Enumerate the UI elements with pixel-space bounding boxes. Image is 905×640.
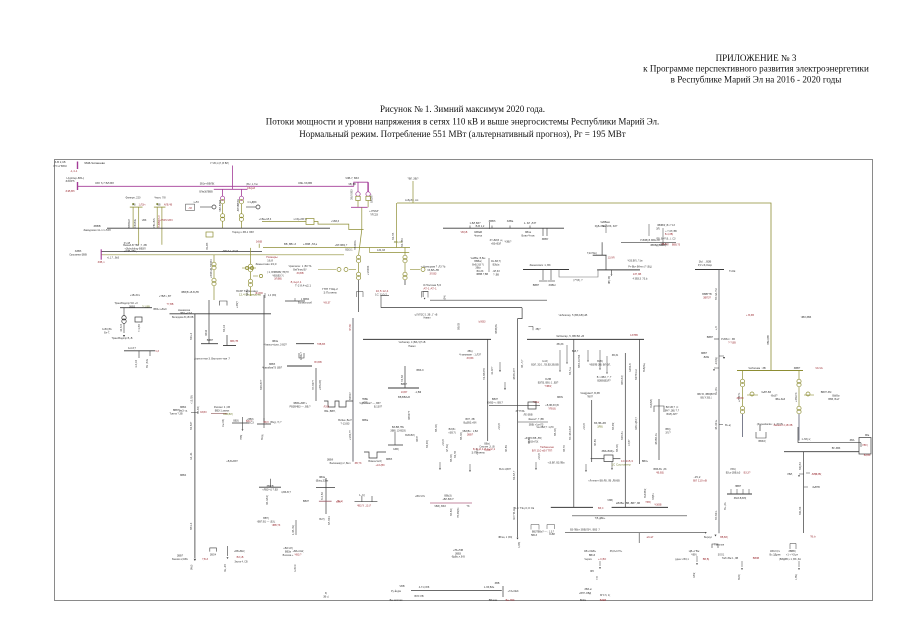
label load bl (234, 550, 245, 553)
svg-text:ВЬ(д, ?(-?: ВЬ(д, ?(-? (271, 421, 283, 424)
svg-text:Потоки мощности и уровни напря: Потоки мощности и уровни напряжения в се… (266, 117, 660, 127)
bus Kokshaysk (695, 269, 724, 271)
svg-text:ЧВУ(: ЧВУ( (691, 553, 697, 556)
bus right section (443, 227, 564, 229)
label small bus left (587, 253, 597, 255)
tick y494 731 (730, 489, 732, 494)
wire AT1 low (357, 201, 359, 208)
cluster GES i (516, 410, 533, 416)
cluster d9 (611, 459, 633, 466)
svg-text:Фанерн, 220: Фанерн, 220 (126, 196, 141, 200)
breaker circle2 (256, 205, 260, 209)
wire GES stub 0 (559, 350, 561, 370)
wire low 241 (240, 222, 242, 229)
stub br b (741, 561, 743, 567)
label y442 (850, 439, 855, 442)
svg-text:ЬЛ(ВЗ: ЬЛ(ВЗ (479, 321, 486, 324)
svg-text:ЗВВУ: ЗВВУ (542, 237, 549, 241)
arrow br b (741, 568, 743, 570)
svg-text:ЧВВ,?З: ЧВВ,?З (272, 524, 281, 527)
svg-text:ЗЗ(Вч: ЗЗ(Вч (652, 493, 655, 500)
wire 220kV Chigashevo-PS7 (78, 185, 354, 187)
svg-text:4-Г1,Об8: 4-Г1,Об8 (419, 586, 430, 589)
bracket box 186 (186, 204, 195, 210)
transformer Tsentr T1 (357, 255, 361, 263)
bus y343 mid (296, 343, 314, 345)
bus y388 (388, 387, 419, 389)
arrow drop Ozerki (611, 274, 613, 276)
wire 110kV Ozerki loop (397, 203, 771, 371)
label Ozerki3 (633, 277, 648, 280)
svg-text:Вч-а(: Вч-а( (725, 424, 731, 427)
cluster TETS2 c (405, 434, 415, 437)
generator dot G2 (156, 203, 158, 205)
label on line 207 (200, 183, 215, 186)
label bypass (573, 279, 583, 282)
vert x625 (624, 353, 626, 507)
svg-text:ЗВО4: ЗВО4 (210, 554, 217, 557)
svg-text:1,4 ,ВЗ(: 1,4 ,ВЗ( (268, 294, 277, 297)
label x803 b (811, 473, 817, 476)
svg-text:1-ЛЗ(,ч(: 1-ЛЗ(,ч( (801, 438, 810, 441)
svg-text:ЧЗВ(: ЧЗВ( (607, 499, 613, 502)
TETS2 vert (394, 432, 396, 445)
legend grp2 d (580, 599, 607, 602)
bracket stack 649 (648, 224, 650, 236)
arrow x719 load (723, 357, 725, 359)
arrow load bl (227, 557, 229, 559)
svg-text:Вч-,ВЬ: Вч-,ВЬ (715, 387, 718, 395)
bracket a (531, 525, 539, 530)
transformer Yubil T1 (403, 255, 407, 263)
wire GES stub 2 (599, 350, 601, 368)
label seg2 (303, 242, 318, 246)
svg-text:+,В,ВЛ, ВЗ,ЛВа: +,В,ВЛ, ВЗ,ЛВа (548, 462, 566, 465)
foot 551 (548, 280, 556, 282)
cluster Rassvet (214, 406, 233, 416)
feeder drop 547 (546, 228, 548, 236)
svg-text:Ь-СЗ,?: Ь-СЗ,? (128, 347, 136, 350)
label gen text b (159, 218, 172, 222)
label load box (210, 554, 217, 557)
svg-text:ВВЗ?-ЗМ: ВВЗ?-ЗМ (821, 391, 832, 394)
cluster GES a (459, 350, 482, 360)
svg-text:ВЗВВ(ВЗЛ?: ВЗВВ(ВЗЛ? (597, 379, 611, 382)
label bracket b (549, 533, 555, 536)
svg-text:?ЗВ,Вб: ?ЗВ,Вб (317, 343, 326, 346)
label x325 l (303, 500, 310, 503)
wire circle pair (242, 267, 256, 269)
svg-text:ЗВВ4: ЗВВ4 (180, 474, 187, 477)
header appendix note (643, 53, 869, 85)
svg-text:Агрегат-ная З ,Вертолет-ная ,?: Агрегат-ная З ,Вертолет-ная ,? (194, 358, 230, 361)
legend val f (506, 599, 515, 602)
svg-text:ВВЗ?: ВВЗ? (303, 500, 310, 503)
stub band 0 (439, 462, 441, 468)
svg-text:1С Суслонгер: 1С Суслонгер (611, 462, 631, 466)
svg-text:ЛР-ВЗ??: ЛР-ВЗ?? (312, 379, 315, 390)
svg-text:ВдЗВЗ,+Вб: ВдЗВЗ,+Вб (464, 421, 478, 424)
label left of node (54, 160, 67, 168)
svg-text:Ру-Ёцрм: Ру-Ёцрм (391, 590, 401, 593)
tick on bus at 510 (509, 226, 511, 229)
arrow GES stub 2 (599, 368, 601, 370)
svg-text:ЧВЗ( ,ВЗЗ: ЧВЗ( ,ВЗЗ (434, 505, 446, 508)
label y515 (595, 517, 606, 520)
svg-text:ЧВЗ,?( ,1З,(?: ЧВЗ,?( ,1З,(? (357, 505, 372, 508)
label x639 bottom (642, 460, 649, 463)
svg-text:ЗВ,-Л,?: ЗВ,-Л,? (521, 359, 524, 368)
cluster d4 (236, 289, 261, 296)
svg-text:У ЧВ,1 (Л,,В ВЛ(: У ЧВ,1 (Л,,В ВЛ( (210, 162, 229, 165)
hook under cluster (299, 353, 304, 358)
rows right bottom J (451, 549, 465, 559)
svg-text:1З7ВВ: 1З7ВВ (630, 334, 638, 337)
wire col405 vert (404, 248, 406, 256)
text 586 481 (588, 480, 620, 483)
cluster d2 (291, 280, 312, 287)
svg-text:АЛВ,ЧВ: АЛВ,ЧВ (164, 204, 173, 207)
rows branch col250 (267, 271, 289, 281)
label cluster343 red (317, 343, 326, 346)
label 2x232 (394, 240, 403, 244)
label gen text a (142, 218, 147, 222)
legend name c (390, 599, 403, 602)
label tv lower (128, 347, 136, 350)
svg-text:ВВВ,?З: ВВВ,?З (672, 244, 681, 247)
cluster left red (281, 491, 291, 494)
svg-text:+-С,ВО: +-С,ВО (598, 558, 606, 561)
vert x517 (517, 319, 519, 538)
label above nek (130, 293, 141, 297)
svg-text:ЛВУ(: ЛВУ( (862, 444, 868, 447)
cluster TETS2 a (390, 426, 406, 432)
svg-text:ВЗ-ЛЗ(: ВЗ-ЛЗ( (197, 406, 200, 414)
label MCK red (598, 507, 604, 510)
vert x353 (352, 318, 354, 462)
svg-text:1З,9Я: 1З,9Я (608, 257, 615, 260)
label 35kV grp (584, 550, 623, 553)
transformer Zven T1 LV (740, 406, 744, 414)
wire col358 b (358, 263, 360, 272)
stub band 3 (585, 464, 587, 470)
label red flow (70, 169, 78, 173)
svg-text:ВЧ,ВВ: ВЧ,ВВ (314, 361, 322, 364)
label cluster343 (263, 340, 287, 346)
svg-text:Черн, 7/8: Черн, 7/8 (154, 196, 166, 200)
transformer col250 T2 (248, 279, 252, 287)
label x719 bottom (704, 536, 713, 539)
label x803 bottom (810, 536, 816, 539)
svg-text:Ч-З,СЗ: Ч-З,СЗ (135, 360, 138, 368)
svg-text:Ь-ВСС: Ь-ВСС (294, 564, 297, 572)
wire PS7 drop AT1 (357, 182, 359, 192)
svg-text:Вомза-ЧкЗ(: Вомза-ЧкЗ( (368, 460, 381, 463)
cross bus (355, 501, 378, 503)
arrow GES stub 1 (566, 362, 568, 364)
cluster left bus (259, 486, 281, 488)
svg-text:+ВЗВЫВ ЛВЗВЗ: +ВЗВЫВ ЛВЗВЗ (210, 259, 213, 278)
hook k10 left end (423, 292, 428, 298)
label y422 (528, 418, 544, 427)
svg-text:ЧВ-ЗЗЧ+: ЧВ-ЗЗЧ+ (715, 419, 718, 430)
svg-text:ВЬВ(: ВЬВ( (738, 574, 741, 580)
wire col358 c (358, 280, 360, 312)
cluster left vert2 (295, 520, 297, 535)
svg-text:+?ВЛч ,В?: +?ВЛч ,В? (159, 294, 172, 298)
vert x209 (208, 300, 210, 344)
svg-text:Балахна(я) 2 ,Вел: Балахна(я) 2 ,Вел (330, 462, 351, 465)
svg-text:ЛЗ-ВВЗ?В: ЛЗ-ВВЗ?В (483, 368, 486, 380)
label Chern 7-8 (154, 196, 166, 200)
arrow x803 (798, 475, 800, 477)
circle zv branch1 (750, 392, 754, 396)
gen pair bus b (154, 206, 166, 208)
arrow tv load (123, 335, 125, 337)
label tv mid2 (180, 312, 193, 315)
label right of 533 (536, 329, 542, 331)
label mid line (284, 242, 296, 246)
label right of bus (153, 308, 167, 311)
bus y366 (287, 365, 312, 367)
label side2 (247, 200, 256, 204)
line Nekamska horiz (170, 313, 272, 315)
svg-text:+ВЛ ЗВЗ(,?: +ВЛ ЗВЗ(,? (335, 244, 348, 247)
svg-text:ВЫ-,ВВП,: ВЫ-,ВВП, (324, 410, 336, 413)
svg-text:1З4,ЗЗ: 1З4,ЗЗ (377, 249, 385, 252)
svg-text:+СВа+ЗЛ,З: +СВа+ЗЛ,З (259, 218, 272, 221)
svg-text:+ВЗ+ВЗЛ: +ВЗ+ВЗЛ (491, 242, 502, 245)
svg-text:ЬЗВ(: ЬЗВ( (393, 448, 399, 451)
svg-text:ЗЗВб: ЗЗВб (75, 249, 82, 253)
svg-text:СВч-ОЕВ+: СВч-ОЕВ+ (584, 550, 597, 553)
svg-text:РВч-ВЗч: РВч-ВЗч (152, 217, 156, 228)
svg-text:ЗчВ,Вб: ЗчВ,Вб (65, 189, 75, 193)
svg-text:+ГЗ+ОЕЗ: +ГЗ+ОЕЗ (508, 590, 519, 593)
svg-text:?З: ?З (467, 505, 470, 508)
cluster band c (594, 422, 606, 428)
svg-text:?В,(ч: ?В,(ч (810, 536, 816, 539)
wire 110kV mid2 (369, 251, 409, 253)
svg-text:ЗВЗВЗ( ,Вч ? 1З: ЗВЗВЗ( ,Вч ? 1З (657, 224, 675, 227)
label x325 red2 (336, 502, 341, 504)
svg-text:РВЗВЧВЗ — ,ВВ,?: РВЗВЧВЗ — ,ВВ,? (289, 405, 311, 408)
transformer Orshanka T1 (212, 262, 216, 270)
red above o8 (256, 241, 263, 244)
svg-text:Чебокчам : ЗВ: Чебокчам : ЗВ (748, 366, 766, 370)
drawing frame (55, 160, 873, 601)
label under trafo (232, 230, 254, 234)
svg-text:ВчВ-ВЛ(: ВчВ-ВЛ( (405, 434, 415, 437)
label x719 end (725, 424, 731, 427)
arrow band 2 (535, 468, 537, 470)
svg-text:Р-ВЗВ(,В ЗВ9+ЛЗ: Р-ВЗВ(,В ЗВ9+ЛЗ (640, 239, 660, 242)
svg-text:ЗВВ( 1З-ВЗЗ(: ЗВВ( 1З-ВЗЗ( (390, 429, 406, 432)
svg-text:-ЛЗ,В: -ЛЗ,В (323, 405, 330, 408)
label x353 bottom (327, 459, 362, 465)
cluster GES d (589, 360, 611, 366)
svg-text:ВЛУ-ЛВ: ВЛУ-ЛВ (414, 595, 423, 598)
thin line y422 (518, 421, 548, 423)
label x803 c (812, 486, 820, 489)
svg-text:ЗВВ?: ЗВВ? (467, 433, 474, 436)
feeder drop 543 (542, 228, 544, 236)
label x719 d (721, 338, 736, 344)
svg-text:+ВВЧЗЗ): +ВВЧЗЗ) (319, 380, 322, 390)
wire PS7 down (361, 207, 363, 229)
bus Pomary (523, 269, 569, 271)
svg-text:?ВЛ?: ?ВЛ? (587, 395, 594, 398)
vert x227 (226, 335, 228, 346)
cross2 vert (242, 417, 244, 429)
bus Ozerki (597, 269, 640, 271)
svg-text:?,В-З: ?,В-З (202, 558, 209, 561)
svg-text:Чермз: Чермз (584, 558, 592, 561)
label bus right a (489, 219, 514, 223)
label bus366 red (314, 361, 322, 364)
stub GES b (504, 382, 506, 388)
svg-text:ЗЬ,-ЗВ: ЗЬ,-ЗВ (224, 564, 227, 572)
label small bus (207, 339, 214, 342)
svg-text:ВЗЬ(а: ВЗЬ(а (493, 263, 500, 266)
svg-text:Чебоксар, 5 (ВЗ,ЬВ) кВ: Чебоксар, 5 (ВЗ,ЬВ) кВ (559, 313, 588, 317)
label under PS7 (369, 210, 379, 216)
svg-text:(ВЗДЗВ,ч 1 ,ВЗ ,ЗА: (ВЗДЗВ,ч 1 ,ВЗ ,ЗА (779, 558, 801, 561)
drop x639 low (638, 533, 640, 543)
wire col405 c (404, 280, 406, 285)
svg-text:?ВВ(: ?ВВ( (240, 434, 243, 440)
label red 2 (65, 189, 75, 193)
wire zv branch2 (804, 394, 814, 396)
label x264 top red (255, 292, 263, 295)
circle pair a (245, 266, 248, 269)
svg-text:чВЗ: чВЗ (142, 218, 147, 222)
box TV (135, 317, 142, 322)
svg-text:ВЗВ-Вч: ВЗВ-Вч (621, 431, 624, 440)
svg-text:ЗЮ: ЗЮ (590, 570, 595, 573)
label y388 under (398, 396, 410, 399)
label x719 j (726, 468, 751, 474)
tick x719 g (719, 355, 724, 357)
label above Orshanka (123, 243, 147, 250)
svg-text:+ЧВЗВЗ: +ЧВЗВЗ (367, 265, 370, 275)
svg-text:ЗМЗ-В,ВЛ(: ЗМЗ-В,ВЛ( (734, 497, 747, 500)
legend grp2 a (584, 588, 591, 591)
svg-text:?-?,ВВ: ?-?,ВВ (728, 341, 736, 344)
label x760 (758, 440, 765, 443)
cluster 519 437 (524, 437, 541, 443)
arrow y532 end (705, 532, 707, 534)
svg-text:1,ЗВ-ЗЧ(: 1,ЗВ-ЗЧ( (292, 525, 295, 535)
label y451 (832, 447, 841, 450)
svg-text:ВЗЬ-З: ВЗЬ-З (190, 332, 193, 340)
svg-text:Вернус: Вернус (704, 536, 713, 539)
svg-text:ВВ-ЗЗ(: ВВ-ЗЗ( (450, 454, 453, 462)
svg-text:ЗЫ. . ,ВЗВ: ЗЫ. . ,ВЗВ (699, 260, 712, 264)
transformer Tsentr T2 (357, 272, 361, 280)
wire col250 a (250, 248, 252, 264)
label Rch ZL (124, 242, 131, 245)
svg-text:ВЗ(Л: ВЗ(Л (263, 422, 269, 424)
wire branch left (318, 269, 336, 271)
tick y494 749 (748, 489, 750, 494)
svg-text:ВЗ(,ВЗ: ВЗ(,ВЗ (799, 462, 802, 470)
label bracket a (531, 534, 537, 537)
svg-text:? ,ВВ: ? ,ВВ (493, 273, 499, 276)
label 35kV grp3 (584, 558, 606, 561)
arrow cross2 (242, 429, 244, 431)
cluster GES c (538, 378, 559, 388)
TETS2 notch (364, 452, 386, 458)
wire drop 241 (240, 189, 242, 196)
red in bracket (188, 208, 192, 210)
label y532 red (647, 536, 654, 539)
svg-text:?ЧВЗ(: ?ЧВЗ( (545, 385, 552, 388)
svg-text:ЗЛ-ВЧ: ЗЛ-ВЧ (594, 439, 597, 446)
cluster TETS2 b (393, 448, 399, 451)
bracket tick 489 (489, 222, 491, 229)
svg-text:ВВВ-Зч?Вб: ВВВ-Зч?Вб (578, 354, 581, 368)
bus TransVodopr (120, 307, 152, 309)
bracket vert 663 (662, 228, 664, 244)
svg-text:ЧВтка, 1 ,ВЗ(: ЧВтка, 1 ,ВЗ( (498, 536, 513, 539)
svg-text:В-З,ВЗ: В-З,ВЗ (321, 492, 324, 500)
node Chigashevo tick (77, 162, 79, 170)
svg-text:Волжск-рыб: Волжск-рыб (298, 301, 312, 304)
wire PS7 drop AT2 (367, 182, 369, 192)
svg-text:ВЛ-ВЗЧ: ВЛ-ВЗЧ (328, 516, 331, 525)
svg-text:ВЗ,а-1ВВ,ЬЗ: ВЗ,а-1ВВ,ЬЗ (726, 471, 741, 474)
label Kok right (729, 269, 736, 273)
svg-text:ВВ(ЛЗ: ВВ(ЛЗ (458, 322, 461, 330)
svg-text:ЗВ,В+ЛЗ(: ЗВ,В+ЛЗ( (528, 440, 539, 443)
svg-text:Вово-Чтаж: Вово-Чтаж (522, 233, 535, 237)
vert x573 (573, 339, 575, 507)
wire 220kV jog up (354, 182, 368, 186)
label branch (289, 265, 312, 275)
arrow GES stub 4 (587, 360, 589, 362)
svg-text:+ВВ+ВЫ(: +ВВ+ВЫ( (234, 550, 245, 553)
svg-text:ТрансВодопр В,-В: ТрансВодопр В,-В (112, 337, 133, 340)
bus bypass step (559, 270, 598, 278)
svg-text:Чказайма?З ,ВВ?: Чказайма?З ,ВВ? (262, 366, 283, 369)
bus small b (223, 345, 236, 347)
svg-text:Вы-ГВЗ: Вы-ГВЗ (506, 599, 515, 602)
svg-text:Нормальный режим. Потребление: Нормальный режим. Потребление 551 МВт (а… (299, 129, 626, 139)
cluster x296b (283, 547, 294, 557)
bus x325 red (319, 500, 332, 502)
arrow band 0 (439, 468, 441, 470)
vert x405 south (404, 366, 406, 388)
label x659 low (665, 428, 671, 434)
wire Zven T1 drop (742, 371, 744, 380)
legend val g (414, 595, 423, 598)
svg-text:ВУВЗ-ч : ВВ,?: ВУВЗ-ч : ВВ,? (487, 401, 504, 404)
label cross top (359, 494, 365, 497)
svg-text:Рисунок № 1. Зимний максимум 2: Рисунок № 1. Зимний максимум 2020 года. (380, 104, 545, 114)
svg-text:Т,Ы РЫч(: Т,Ы РЫч( (587, 253, 597, 255)
svg-text:ЗВПЗ?: ЗВПЗ? (703, 296, 711, 299)
wire col358 a (359, 230, 362, 256)
arrow x719 bottom (714, 535, 716, 537)
cluster d10 (693, 475, 707, 482)
label PS Chigashevo (84, 161, 105, 165)
stub band 2 (535, 462, 537, 468)
vert x264 (263, 295, 265, 422)
svg-text:ВчВ(Вщ: ВчВ(Вщ (643, 363, 646, 372)
svg-text:ВВЧ-З: ВВЧ-З (190, 522, 193, 530)
svg-text:Вч-,ЗЬ: Вч-,ЗЬ (724, 502, 727, 510)
